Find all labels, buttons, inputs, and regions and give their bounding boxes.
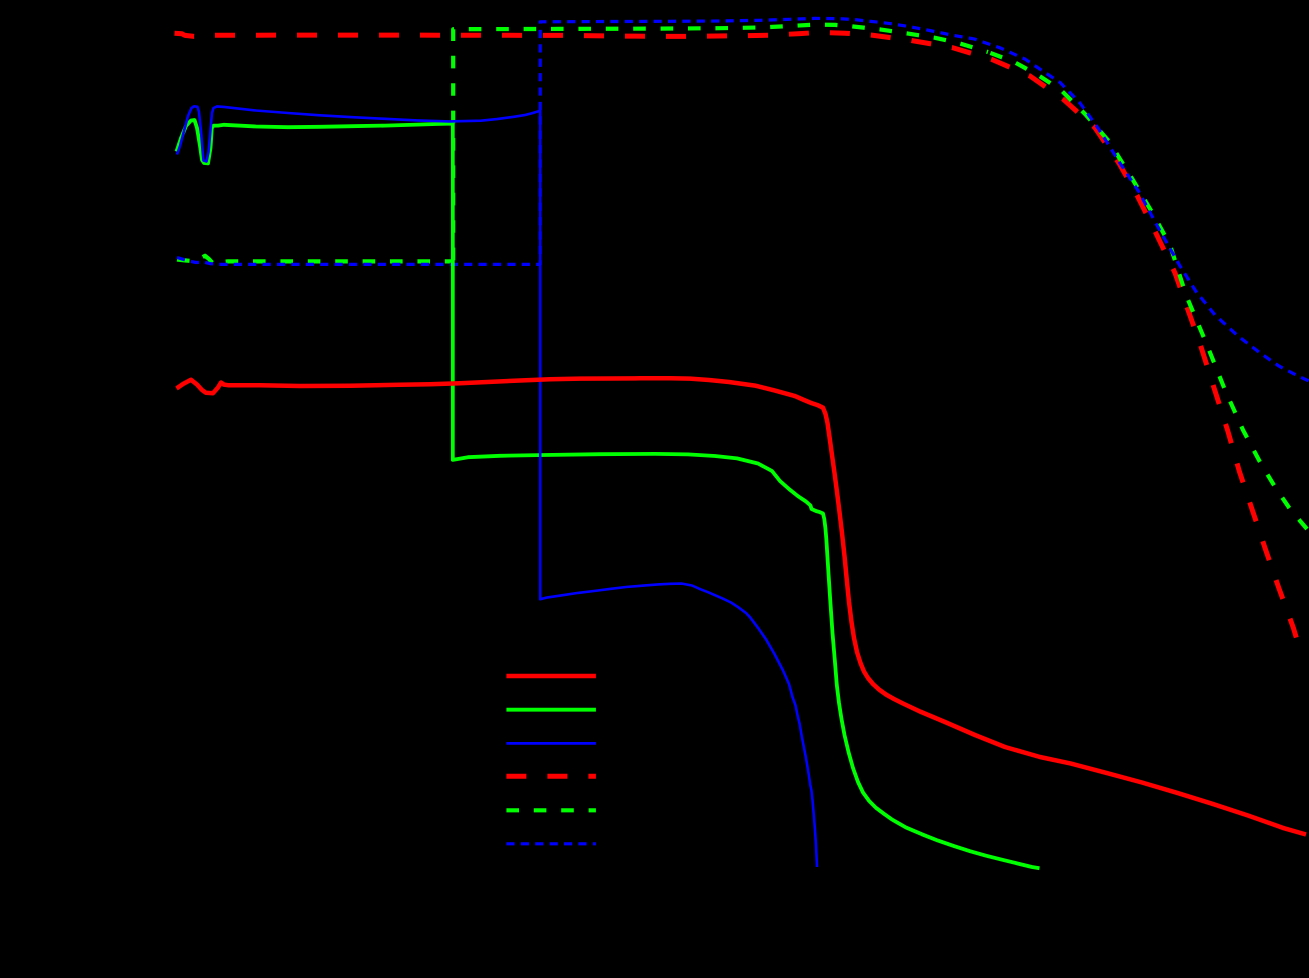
solid green curve: green output trace with vertical drop at x=453 xyxy=(177,120,1040,868)
legend sample solid green line xyxy=(506,708,596,712)
dotted blue curve: blue efficiency trace with vertical step at x=541 xyxy=(177,18,1309,381)
dashed green curve: green efficiency trace with vertical step at x=453 xyxy=(177,256,453,265)
dashed red curve: upper red efficiency trace xyxy=(175,32,1298,640)
dashed green curve: descending tail xyxy=(988,52,1307,529)
legend sample dotted blue line xyxy=(506,842,596,845)
dashed green curve: vertical step and top plateau xyxy=(453,25,988,262)
solid red curve: red output trace xyxy=(177,378,1307,834)
legend sample solid blue line xyxy=(506,742,596,745)
legend sample solid red line xyxy=(506,674,596,678)
solid blue curve: blue output trace with vertical drop at x=541 xyxy=(177,106,817,867)
legend sample dashed red line xyxy=(506,774,596,779)
legend sample dashed green line xyxy=(506,808,596,812)
